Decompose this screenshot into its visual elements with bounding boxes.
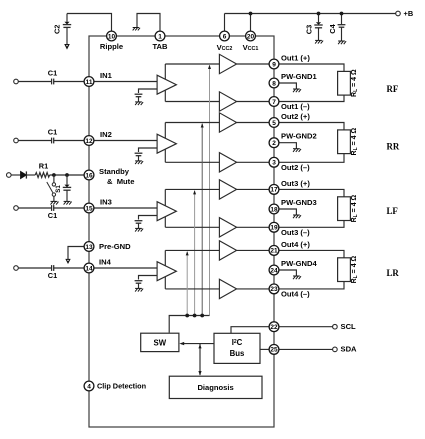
ground standby cap	[64, 201, 72, 204]
pin 7	[269, 97, 279, 107]
label IN4	[99, 258, 112, 267]
svg-text:IN2: IN2	[100, 130, 112, 139]
wire buffer to Out3-	[237, 226, 270, 228]
wire diagnosis link	[198, 344, 201, 376]
pin 16 Standby	[84, 170, 94, 180]
svg-text:16: 16	[85, 172, 93, 179]
input terminal IN1	[14, 79, 19, 84]
svg-text:Standby: Standby	[99, 167, 130, 176]
wire Vcc2 riser	[224, 14, 226, 32]
control line channel 1	[208, 65, 211, 316]
resistor load RL channel 1	[338, 71, 351, 95]
wire inverting cap channel 4	[139, 276, 158, 280]
svg-text:Out2 (+): Out2 (+)	[281, 112, 310, 121]
pin 17	[269, 185, 279, 195]
ground feedback cap channel 3	[135, 228, 143, 231]
pin 14 IN4	[84, 263, 94, 273]
svg-text:C1: C1	[48, 271, 57, 280]
wire C1 to pin 15	[54, 207, 84, 209]
label TAB	[152, 42, 168, 51]
ground C4	[338, 41, 346, 44]
svg-text:S1: S1	[55, 185, 62, 193]
svg-text:RR: RR	[387, 142, 400, 152]
svg-text:Out2 (–): Out2 (–)	[281, 163, 310, 172]
op-amp buffer 1-	[219, 92, 236, 111]
label PW-GND3	[281, 198, 317, 207]
diode D1	[21, 171, 27, 178]
pin 19	[269, 222, 279, 232]
node switch branch	[52, 173, 56, 177]
svg-text:Out1 (+): Out1 (+)	[281, 53, 310, 62]
wire input IN1	[18, 81, 51, 83]
label Standby & Mute	[99, 167, 134, 186]
+B terminal	[396, 11, 401, 16]
wire Out4- to load	[279, 282, 344, 289]
label LF	[387, 206, 398, 216]
svg-text:& Mute: & Mute	[107, 177, 134, 186]
pin 9	[269, 59, 279, 69]
label C1 (IN4)	[48, 271, 57, 280]
wire Out3+ to load	[279, 189, 344, 196]
node Vcc1 rail junction	[249, 12, 253, 16]
node control ch3	[193, 314, 197, 318]
svg-text:4: 4	[87, 383, 91, 390]
label C1 (IN1)	[48, 68, 57, 77]
capacitor C1 (IN1)	[52, 79, 54, 85]
svg-text:Out4 (+): Out4 (+)	[281, 240, 310, 249]
svg-text:22: 22	[270, 324, 278, 331]
op-amp buffer 4-	[219, 279, 236, 298]
ground TAB	[133, 28, 140, 31]
resistor R1	[26, 173, 49, 178]
op-amp input A2	[157, 134, 176, 153]
wire C1 to pin 11	[54, 81, 84, 83]
wire input IN2	[18, 140, 51, 142]
capacitor feedback channel 4	[135, 281, 143, 289]
svg-text:23: 23	[270, 286, 278, 293]
ground PW-GND4	[293, 276, 301, 279]
svg-text:25: 25	[270, 347, 278, 354]
node C3 rail junction	[317, 12, 321, 16]
wire inverting cap channel 3	[139, 216, 158, 220]
ground feedback cap channel 2	[135, 161, 143, 164]
wire Pre-GND arrow	[68, 247, 84, 260]
label Out3 (+)	[281, 179, 310, 188]
wire buffer to Out1+	[237, 63, 270, 65]
label Out2 (+)	[281, 112, 310, 121]
svg-text:C1: C1	[48, 127, 57, 136]
wire Vcc1 riser	[250, 14, 252, 32]
capacitor C1 (IN4)	[52, 265, 54, 271]
label RL = 4 Ohm channel 4	[351, 255, 359, 283]
svg-text:C1: C1	[48, 211, 57, 220]
label Out2 (&#8211;)	[281, 163, 310, 172]
svg-text:LF: LF	[387, 206, 398, 216]
standby input terminal	[7, 173, 12, 178]
control line channel 2	[201, 123, 204, 315]
svg-text:RF: RF	[387, 84, 399, 94]
svg-text:TAB: TAB	[152, 42, 168, 51]
svg-text:2: 2	[272, 140, 276, 147]
label C3	[305, 25, 314, 34]
svg-text:11: 11	[86, 79, 93, 86]
IC body outline	[89, 36, 274, 427]
svg-text:PW-GND3: PW-GND3	[281, 198, 317, 207]
capacitor C3	[314, 14, 322, 41]
+B supply rail	[225, 13, 396, 15]
svg-text:17: 17	[270, 187, 278, 194]
capacitor standby	[63, 175, 71, 201]
ground PW-GND3	[293, 215, 301, 218]
svg-text:13: 13	[85, 244, 93, 251]
svg-text:Out4 (–): Out4 (–)	[281, 290, 310, 299]
wire input IN3	[18, 207, 51, 209]
label IN2	[100, 130, 112, 139]
label +B	[404, 9, 414, 18]
svg-text:1: 1	[158, 33, 162, 40]
svg-text:I2C: I2C	[232, 338, 243, 347]
svg-text:PW-GND1: PW-GND1	[281, 72, 317, 81]
label IN3	[100, 198, 112, 207]
label Ripple	[100, 42, 123, 51]
block I2C Bus	[214, 333, 260, 363]
op-amp buffer 1+	[219, 54, 236, 73]
capacitor feedback channel 2	[135, 153, 143, 161]
svg-text:20: 20	[247, 33, 255, 40]
wire Out1+ to load	[279, 64, 344, 71]
label Pre-GND	[99, 242, 131, 251]
wire R1 to pin 16	[50, 174, 85, 176]
svg-text:10: 10	[108, 33, 116, 40]
label Out1 (+)	[281, 53, 310, 62]
label Out4 (+)	[281, 240, 310, 249]
capacitor feedback channel 3	[135, 221, 143, 229]
wire pin 12 to amp (IN2)	[94, 140, 157, 142]
wire Out2- to load	[279, 154, 344, 163]
svg-text:9: 9	[272, 61, 276, 68]
wire pin 25 to I2C	[260, 348, 269, 350]
pin 10 Ripple	[107, 31, 117, 41]
svg-text:SDA: SDA	[341, 345, 358, 354]
wire SCL	[279, 326, 333, 328]
wire inverting cap channel 2	[139, 148, 158, 152]
svg-text:18: 18	[270, 206, 278, 213]
label SDA	[341, 345, 358, 354]
ground PW-GND2	[293, 149, 301, 152]
pin 18	[269, 204, 279, 214]
op-amp buffer 3+	[219, 180, 236, 199]
wire PW-GND4	[279, 270, 297, 276]
label LR	[387, 268, 400, 278]
svg-text:21: 21	[270, 248, 278, 255]
pin 2	[269, 138, 279, 148]
svg-text:C3: C3	[305, 25, 314, 34]
terminal SCL	[333, 324, 338, 329]
pin 12 IN2	[84, 136, 94, 146]
resistor load RL channel 3	[338, 197, 351, 221]
label RL = 4 Ohm channel 1	[351, 69, 359, 97]
label C4	[328, 23, 337, 33]
svg-text:+B: +B	[404, 9, 414, 18]
node control ch2	[200, 314, 204, 318]
label S1	[55, 185, 62, 193]
op-amp buffer 4+	[219, 241, 236, 260]
svg-text:Out1 (–): Out1 (–)	[281, 102, 310, 111]
label SCL	[341, 322, 357, 331]
pin 11 IN1	[84, 77, 94, 87]
wire C1 to pin 12	[54, 140, 84, 142]
op-amp buffer 3-	[219, 218, 236, 237]
pin 20 Vcc1	[246, 31, 256, 41]
label C1 (IN2)	[48, 127, 57, 136]
svg-text:PW-GND2: PW-GND2	[281, 132, 317, 141]
wire Out4+ to load	[279, 250, 344, 257]
label R1	[39, 161, 48, 170]
wire pin 14 to amp (IN4)	[94, 267, 157, 269]
svg-text:C1: C1	[48, 68, 57, 77]
label RR	[387, 142, 400, 152]
capacitor feedback channel 1	[135, 94, 143, 102]
wire pin 22 to I2C	[231, 327, 269, 334]
ground feedback cap channel 1	[135, 102, 143, 105]
pin 3	[269, 157, 279, 167]
svg-text:Ripple: Ripple	[100, 42, 123, 51]
resistor load RL channel 4	[338, 258, 351, 282]
svg-text:R1: R1	[39, 161, 48, 170]
pin 21	[269, 246, 279, 256]
wire pin 15 to amp (IN3)	[94, 207, 157, 209]
input terminal IN4	[14, 266, 19, 271]
label Vcc2	[217, 43, 233, 52]
block SW	[141, 333, 179, 351]
op-amp buffer 2-	[219, 153, 236, 172]
svg-text:14: 14	[85, 265, 93, 272]
svg-text:C4: C4	[328, 23, 337, 33]
svg-text:Pre-GND: Pre-GND	[99, 242, 131, 251]
pin 22	[269, 322, 279, 332]
pin 25	[269, 345, 279, 355]
svg-text:7: 7	[272, 99, 276, 106]
wire input IN4	[18, 267, 51, 269]
svg-text:C2: C2	[53, 25, 62, 34]
op-amp input A3	[157, 202, 176, 221]
wire buffer to Out4-	[237, 288, 270, 290]
wire Out2+ to load	[279, 123, 344, 130]
svg-text:IN3: IN3	[100, 198, 112, 207]
svg-text:PW-GND4: PW-GND4	[281, 259, 317, 268]
label C1 (IN3)	[48, 211, 57, 220]
wire C1 to pin 14	[54, 267, 84, 269]
label PW-GND1	[281, 72, 317, 81]
svg-text:8: 8	[272, 80, 276, 87]
input terminal IN2	[14, 138, 19, 143]
capacitor C1 (IN3)	[52, 205, 54, 211]
label Clip Detection	[97, 382, 146, 391]
svg-text:24: 24	[270, 267, 278, 274]
ground arrow Pre-GND	[66, 259, 70, 263]
svg-text:IN4: IN4	[99, 258, 112, 267]
svg-text:15: 15	[85, 205, 93, 212]
svg-text:5: 5	[272, 120, 276, 127]
wire buffer to Out2+	[237, 122, 270, 124]
pin 5	[269, 118, 279, 128]
svg-text:SCL: SCL	[341, 322, 357, 331]
input terminal IN3	[14, 206, 19, 211]
op-amp buffer 2+	[219, 113, 236, 132]
svg-text:Clip Detection: Clip Detection	[97, 382, 146, 391]
wire terminal to diode	[11, 174, 20, 176]
label C2	[53, 25, 62, 34]
svg-text:19: 19	[270, 225, 278, 232]
label RL = 4 Ohm channel 3	[351, 194, 359, 222]
label RF	[387, 84, 399, 94]
wire buffer to Out4+	[237, 249, 270, 251]
wire Out1- to load	[279, 95, 344, 101]
wire inverting cap channel 1	[139, 89, 158, 93]
label Out4 (&#8211;)	[281, 290, 310, 299]
pin 1 TAB	[155, 31, 165, 41]
label Out1 (&#8211;)	[281, 102, 310, 111]
wire loop channel 4	[165, 250, 219, 289]
pin 24	[269, 265, 279, 275]
wire PW-GND3	[279, 209, 297, 215]
op-amp input A4	[157, 262, 176, 281]
svg-text:Bus: Bus	[230, 349, 245, 358]
ground PW-GND1	[293, 89, 301, 92]
wire buffer to Out1-	[237, 101, 270, 103]
terminal SDA	[333, 347, 338, 352]
ground arrow C2	[65, 44, 70, 49]
node C4 rail junction	[340, 12, 344, 16]
svg-text:SW: SW	[154, 338, 167, 347]
TAB ground loop	[137, 14, 160, 32]
capacitor C2 ripple	[63, 14, 112, 45]
wire loop channel 1	[165, 64, 219, 102]
pin 23	[269, 284, 279, 294]
svg-text:IN1: IN1	[100, 71, 113, 80]
wire loop channel 2	[165, 123, 219, 163]
pin 6 Vcc2	[220, 31, 230, 41]
label IN1	[100, 71, 113, 80]
svg-text:Out3 (+): Out3 (+)	[281, 179, 310, 188]
svg-text:Diagnosis: Diagnosis	[197, 383, 233, 392]
ground switch	[51, 201, 59, 204]
svg-text:12: 12	[85, 138, 93, 145]
pin 15 IN3	[84, 203, 94, 213]
node control ch4	[185, 314, 189, 318]
resistor load RL channel 2	[338, 130, 351, 154]
wire PW-GND2	[279, 143, 297, 149]
capacitor C4	[338, 14, 346, 41]
pin 13 Pre-GND	[84, 242, 94, 252]
wire buffer to Out3+	[237, 188, 270, 190]
pin 8	[269, 78, 279, 88]
svg-text:6: 6	[223, 33, 227, 40]
ground C3	[315, 40, 323, 43]
svg-text:Out3 (–): Out3 (–)	[281, 228, 310, 237]
wire Out3- to load	[279, 221, 344, 228]
wire I2C to SW arrow	[179, 342, 214, 345]
wire buffer to Out2-	[237, 161, 270, 163]
label RL = 4 Ohm channel 2	[351, 128, 359, 156]
wire control bus	[169, 316, 209, 333]
label PW-GND4	[281, 259, 317, 268]
ground feedback cap channel 4	[135, 288, 143, 291]
label PW-GND2	[281, 132, 317, 141]
pin 4 Clip Detection	[84, 381, 94, 391]
node cap branch	[65, 173, 69, 177]
wire SDA	[279, 348, 333, 350]
control line channel 3	[193, 190, 196, 315]
block Diagnosis	[169, 376, 262, 398]
op-amp input A1	[157, 75, 176, 94]
wire loop channel 3	[165, 189, 219, 227]
wire pin 11 to amp (IN1)	[94, 81, 157, 83]
svg-text:LR: LR	[387, 268, 400, 278]
label Out3 (&#8211;)	[281, 228, 310, 237]
switch S1	[47, 175, 56, 201]
label Vcc1	[243, 43, 259, 52]
svg-text:3: 3	[272, 160, 276, 167]
capacitor C1 (IN2)	[52, 138, 54, 144]
control line channel 4	[186, 251, 189, 315]
wire PW-GND1	[279, 83, 297, 89]
